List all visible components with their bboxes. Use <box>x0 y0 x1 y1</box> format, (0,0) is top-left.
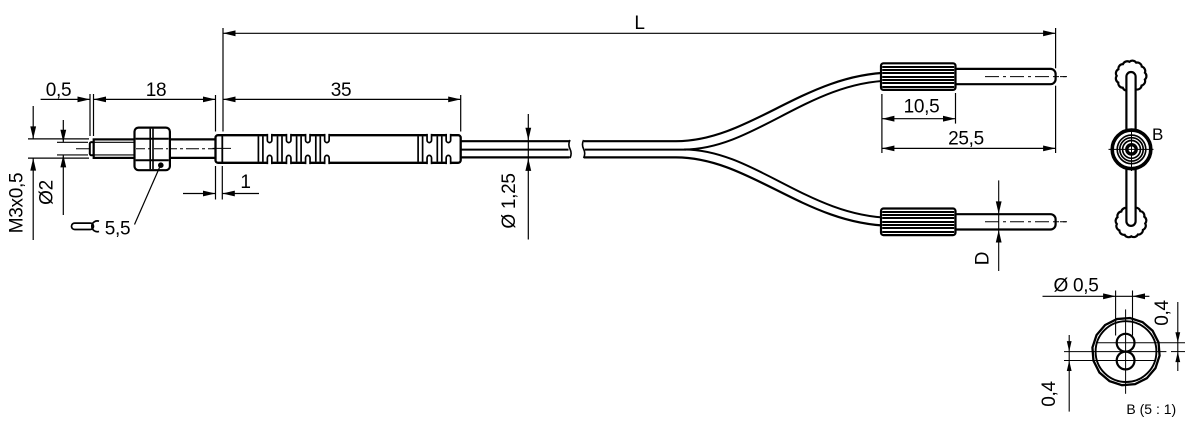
sleeve ring grooves <box>257 136 259 162</box>
view B ferrule face outer ring <box>1112 130 1151 169</box>
dimension 35 line <box>223 98 461 100</box>
detail B center tick right <box>1171 351 1185 353</box>
cable segment outline before break <box>461 140 570 142</box>
upper connector ferrule shaft <box>956 69 1056 84</box>
sleeve internal edge at 1mm <box>221 136 223 162</box>
wrench size symbol <box>72 223 94 229</box>
dimension 18 line <box>94 98 216 100</box>
svg-text:Ø 0,5: Ø 0,5 <box>1054 276 1099 297</box>
svg-text:18: 18 <box>146 80 167 101</box>
svg-text:D: D <box>973 252 994 265</box>
centerline main axis <box>76 148 232 150</box>
svg-text:0,4: 0,4 <box>1039 381 1060 407</box>
lower connector ferrule shaft <box>956 214 1056 229</box>
hex nut outline <box>135 128 170 171</box>
svg-text:5,5: 5,5 <box>105 219 131 240</box>
view B upper stem <box>1126 72 1135 135</box>
extension lines for dimension 1 <box>215 166 217 200</box>
svg-text:1: 1 <box>240 172 250 193</box>
dimension Ø1,25 line and arrows <box>527 114 529 240</box>
lower connector centerline inside shaft <box>985 221 1067 223</box>
extension line right of 35 <box>460 95 462 132</box>
detail B inner circle <box>1096 321 1157 382</box>
extension line right of L and 25,5 <box>1055 28 1057 68</box>
dimension 1 lines and arrows <box>183 193 216 195</box>
cable segment outline after break <box>584 140 676 142</box>
svg-text:B (5 : 1): B (5 : 1) <box>1126 401 1176 417</box>
extension lines M3 thread OD <box>28 138 89 140</box>
shaft between nut and sleeve <box>170 138 216 140</box>
hex nut facet lines <box>136 138 169 140</box>
svg-text:L: L <box>634 13 644 34</box>
lower connector knurled grip <box>881 209 956 236</box>
leader dot on nut (wrench flat) <box>158 162 164 168</box>
svg-text:0,4: 0,4 <box>1152 300 1173 326</box>
lower branch cable <box>684 150 893 218</box>
svg-text:25,5: 25,5 <box>948 129 984 150</box>
dimension Ø2 lines and arrows <box>62 120 64 142</box>
upper connector knurled grip <box>881 63 956 90</box>
extension line left of 10,5 and 25,5 <box>881 94 883 153</box>
dimension 10,5 line <box>882 118 956 120</box>
svg-text:B: B <box>1152 125 1163 144</box>
detail B upper core centerline <box>1096 342 1185 344</box>
centerline across nut <box>136 148 168 150</box>
view B crosshair <box>1109 148 1154 150</box>
detail B vertical centerline <box>1125 309 1127 393</box>
dimension M3x0,5 lines and arrows <box>32 106 34 139</box>
extension lines Ø2 tip OD <box>57 141 88 143</box>
dimension L line <box>223 32 1056 34</box>
view B concentric circles <box>1117 135 1146 164</box>
dimension D line and arrows <box>998 180 1000 271</box>
cable break squiggle right <box>582 140 584 158</box>
svg-text:35: 35 <box>331 80 352 101</box>
extension lines 0,5 (tip length) <box>89 94 91 136</box>
sleeve body outline <box>216 135 461 163</box>
detail B outer knurled ring <box>1092 318 1159 385</box>
svg-text:0,5: 0,5 <box>46 80 72 101</box>
hex nut middle groove lines <box>149 129 151 170</box>
dimension 25,5 line <box>882 147 1056 149</box>
thread minor diameter lines <box>95 141 135 143</box>
lower connector centerline <box>932 221 1067 223</box>
dimension Ø0,5 line and arrows <box>1043 295 1150 297</box>
sleeve strain relief slots <box>268 133 272 136</box>
sensor tip cap <box>90 142 94 155</box>
view B lower knurled knob <box>1116 207 1147 238</box>
svg-text:Ø 1,25: Ø 1,25 <box>499 173 520 228</box>
view B dark center <box>1127 145 1136 154</box>
detail B lower core centerline <box>1064 360 1156 362</box>
dimension Ø0,5 extension lines <box>1115 291 1117 336</box>
view B lower stem <box>1126 163 1135 226</box>
detail B upper fiber core <box>1117 334 1135 352</box>
extension line left of L and 35 <box>222 28 224 132</box>
svg-text:M3x0,5: M3x0,5 <box>7 173 28 234</box>
threaded barrel outline <box>94 139 135 158</box>
view B upper knurled knob <box>1116 61 1147 92</box>
upper connector centerline inside shaft <box>985 76 1067 78</box>
leader line to wrench flat <box>135 168 160 225</box>
dimension 0,5 line and arrow <box>41 98 90 100</box>
upper connector centerline <box>932 76 1067 78</box>
extension line 18 right (sleeve left edge) <box>215 95 217 132</box>
upper branch cable <box>676 73 893 142</box>
extension line right of 10,5 <box>955 93 957 124</box>
detail B lower fiber core <box>1117 352 1135 370</box>
svg-text:Ø2: Ø2 <box>37 180 58 205</box>
dimension 0,4 right line and arrows <box>1177 302 1179 371</box>
dimension 0,4 left line and arrows <box>1068 335 1070 412</box>
cable break squiggle left <box>569 140 571 158</box>
svg-text:10,5: 10,5 <box>904 97 940 118</box>
centerline tick at sleeve start <box>213 147 232 149</box>
detail B horizontal centerline <box>1064 351 1166 353</box>
